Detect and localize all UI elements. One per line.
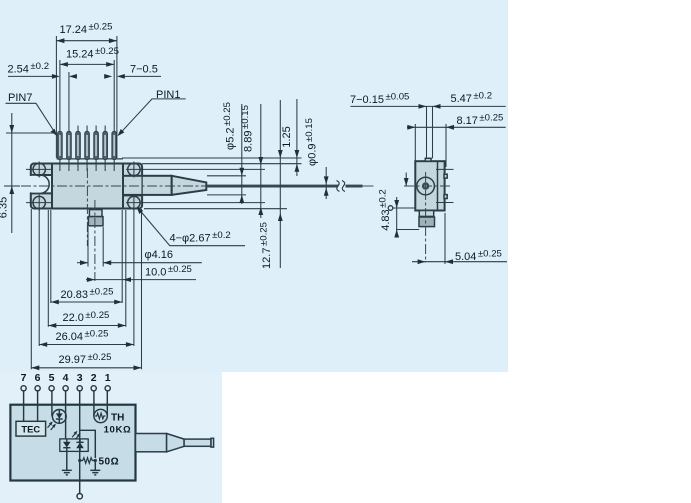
horizontal centerline	[21, 185, 206, 187]
dim 29.97 line	[31, 367, 141, 369]
fiber boot end cap	[211, 438, 214, 447]
wire pin2 to TH	[93, 391, 95, 416]
mounting ear bottom-right	[123, 195, 142, 208]
right ext line lower hole axis	[126, 202, 265, 204]
dim 12.7/8.89 shared vertical	[260, 104, 262, 218]
package body	[52, 164, 123, 209]
svg-text:6.35: 6.35	[0, 197, 10, 218]
right ext line body top	[142, 163, 302, 165]
fiber snout tube	[123, 176, 172, 195]
leader 4-phi2.67	[138, 208, 245, 246]
ext verticals top dims	[426, 106, 428, 158]
svg-text:PIN7: PIN7	[8, 92, 32, 104]
flange tab lower	[444, 195, 447, 199]
svg-text:1.25: 1.25	[281, 126, 293, 147]
ext lines above pins	[55, 36, 57, 158]
hole top-left	[33, 163, 45, 175]
svg-text:φ4.16: φ4.16	[145, 249, 174, 261]
pins edge-on line	[393, 207, 416, 209]
wire pin7 to TEC	[23, 391, 25, 421]
dim phi0.9 vertical	[325, 167, 327, 199]
left ext line at pin top	[6, 132, 57, 134]
pin 1	[112, 126, 117, 172]
laser diode (up)	[76, 443, 84, 449]
dim phi4.16 line	[103, 262, 202, 264]
resistor 50ohm	[80, 458, 96, 464]
top bump (pin stack edge)	[425, 158, 431, 161]
svg-text:10KΩ: 10KΩ	[104, 425, 132, 436]
dim 1.25 vertical	[296, 99, 298, 176]
mounting ear top-left	[31, 164, 52, 176]
svg-text:4: 4	[63, 372, 69, 384]
hole bottom-right	[128, 196, 140, 208]
pin 5	[76, 126, 81, 172]
pin 2	[103, 126, 108, 172]
svg-text:6: 6	[35, 372, 41, 384]
dim 2.54 line and arrows	[8, 75, 52, 77]
nut	[419, 217, 435, 227]
junction dots	[78, 459, 81, 462]
monitor PD diode (down)	[63, 442, 71, 448]
dim 10.0 line	[95, 279, 196, 281]
dim 4.83 vertical	[396, 197, 398, 238]
pin 7	[58, 126, 63, 172]
TH thermistor circle	[94, 409, 107, 422]
svg-text:5: 5	[49, 372, 55, 384]
fiber boss center dot	[425, 185, 426, 186]
hole top-right	[128, 163, 140, 175]
ground wire right	[94, 461, 96, 471]
fiber boot cone	[172, 176, 207, 195]
side vertical centerline	[425, 172, 427, 263]
wire pin4 PD to LD box	[65, 416, 67, 439]
pin 6	[67, 126, 72, 172]
ground wire under monitor PD	[66, 451, 68, 470]
fiber break symbol	[337, 181, 346, 192]
fiber boot thin tube	[184, 439, 211, 446]
dim 5.04 line	[412, 261, 507, 263]
L wire from pin3 over to right drop	[80, 430, 96, 458]
dim phi5.2 vertical	[241, 104, 243, 204]
dim 22.0 line	[48, 325, 126, 327]
pin 3	[94, 126, 99, 172]
svg-text:50Ω: 50Ω	[99, 456, 120, 467]
lower-left pale blue panel behind schematic	[0, 372, 222, 503]
dim 26.04 line	[39, 344, 134, 346]
bottom stub neck	[89, 210, 102, 217]
flange tab upper	[444, 174, 447, 178]
photodiode circle	[52, 410, 66, 424]
dim 15.24 line	[60, 63, 114, 65]
svg-text:2: 2	[91, 372, 97, 384]
mounting ear top-right	[123, 164, 142, 177]
svg-text:3: 3	[77, 372, 83, 384]
wire pin3 full drop	[79, 391, 81, 494]
case pin terminal below box	[77, 494, 82, 499]
bottom stub collar	[88, 217, 103, 226]
stub centerline	[94, 200, 96, 281]
fiber boss ring	[422, 182, 429, 189]
fiber segment 2 after break	[346, 185, 363, 188]
ext verticals below package	[30, 209, 32, 369]
side horizontal centerline	[404, 185, 452, 187]
right ext line seam top a	[122, 157, 302, 159]
right ext line snout bottom	[207, 194, 246, 196]
svg-text:7: 7	[21, 372, 27, 384]
stub ext verticals	[87, 227, 89, 267]
svg-text:TH: TH	[111, 412, 124, 423]
PIN7 leader	[6, 103, 56, 133]
pin terminal circles 7..1	[21, 386, 26, 391]
left centerline extension	[4, 185, 20, 187]
neck below body	[419, 211, 433, 217]
package outline box	[10, 405, 135, 481]
dim 7-0.5 line and arrows	[125, 75, 162, 77]
pin ball end	[388, 206, 393, 211]
hole bottom-left	[33, 196, 45, 208]
right ext line body bottom	[144, 208, 287, 210]
wire pin1 to TH	[106, 391, 108, 416]
ext verticals below nut	[444, 213, 446, 264]
fiber segment 1	[206, 185, 338, 188]
right ext line upper hole axis	[126, 168, 265, 170]
LD module box	[60, 439, 88, 452]
dim 20.83 line	[51, 301, 122, 303]
wire pin6 to TEC	[37, 391, 39, 421]
side body	[415, 161, 444, 210]
TH zigzag	[95, 413, 105, 419]
right ext line snout top	[207, 175, 246, 177]
hole centerline crosses	[26, 162, 134, 211]
wire pin4 to PD	[65, 391, 67, 416]
dim vertical at 280	[279, 100, 281, 268]
dim 6.35 vertical line	[11, 113, 13, 233]
fiber boot taper	[167, 434, 185, 452]
vertical centerline through stub	[86, 168, 88, 246]
fiber thin tail	[363, 185, 374, 187]
fiber boot wide section	[136, 434, 167, 452]
svg-text:7−0.5: 7−0.5	[130, 64, 158, 76]
mounting ear bottom-left	[31, 193, 52, 208]
flange plate line	[437, 161, 439, 210]
wire pin5 to PD	[51, 391, 53, 416]
left notch between ears	[32, 175, 50, 193]
svg-text:TEC: TEC	[21, 423, 40, 434]
fiber boss outer circle	[417, 177, 435, 195]
dim 8.17 line	[407, 126, 506, 128]
ground symbol right	[90, 470, 100, 475]
flange edge across snout	[141, 176, 143, 195]
LD emission arrows	[72, 433, 79, 440]
pin 4	[85, 126, 90, 172]
main light blue panel	[0, 0, 508, 372]
photodiode symbol	[56, 413, 63, 418]
dim 17.24 line	[56, 40, 117, 42]
ground symbol left	[62, 470, 72, 475]
side hole axis ticks	[436, 168, 454, 170]
dim 7-0.15 / 5.47 line	[350, 105, 505, 107]
fiber boss core	[424, 185, 427, 188]
svg-text:1: 1	[105, 372, 111, 384]
TEC box	[16, 421, 46, 436]
lid seam strip (hatched)	[57, 158, 123, 160]
PD photon arrows	[48, 424, 55, 431]
PIN1 leader	[119, 99, 185, 134]
